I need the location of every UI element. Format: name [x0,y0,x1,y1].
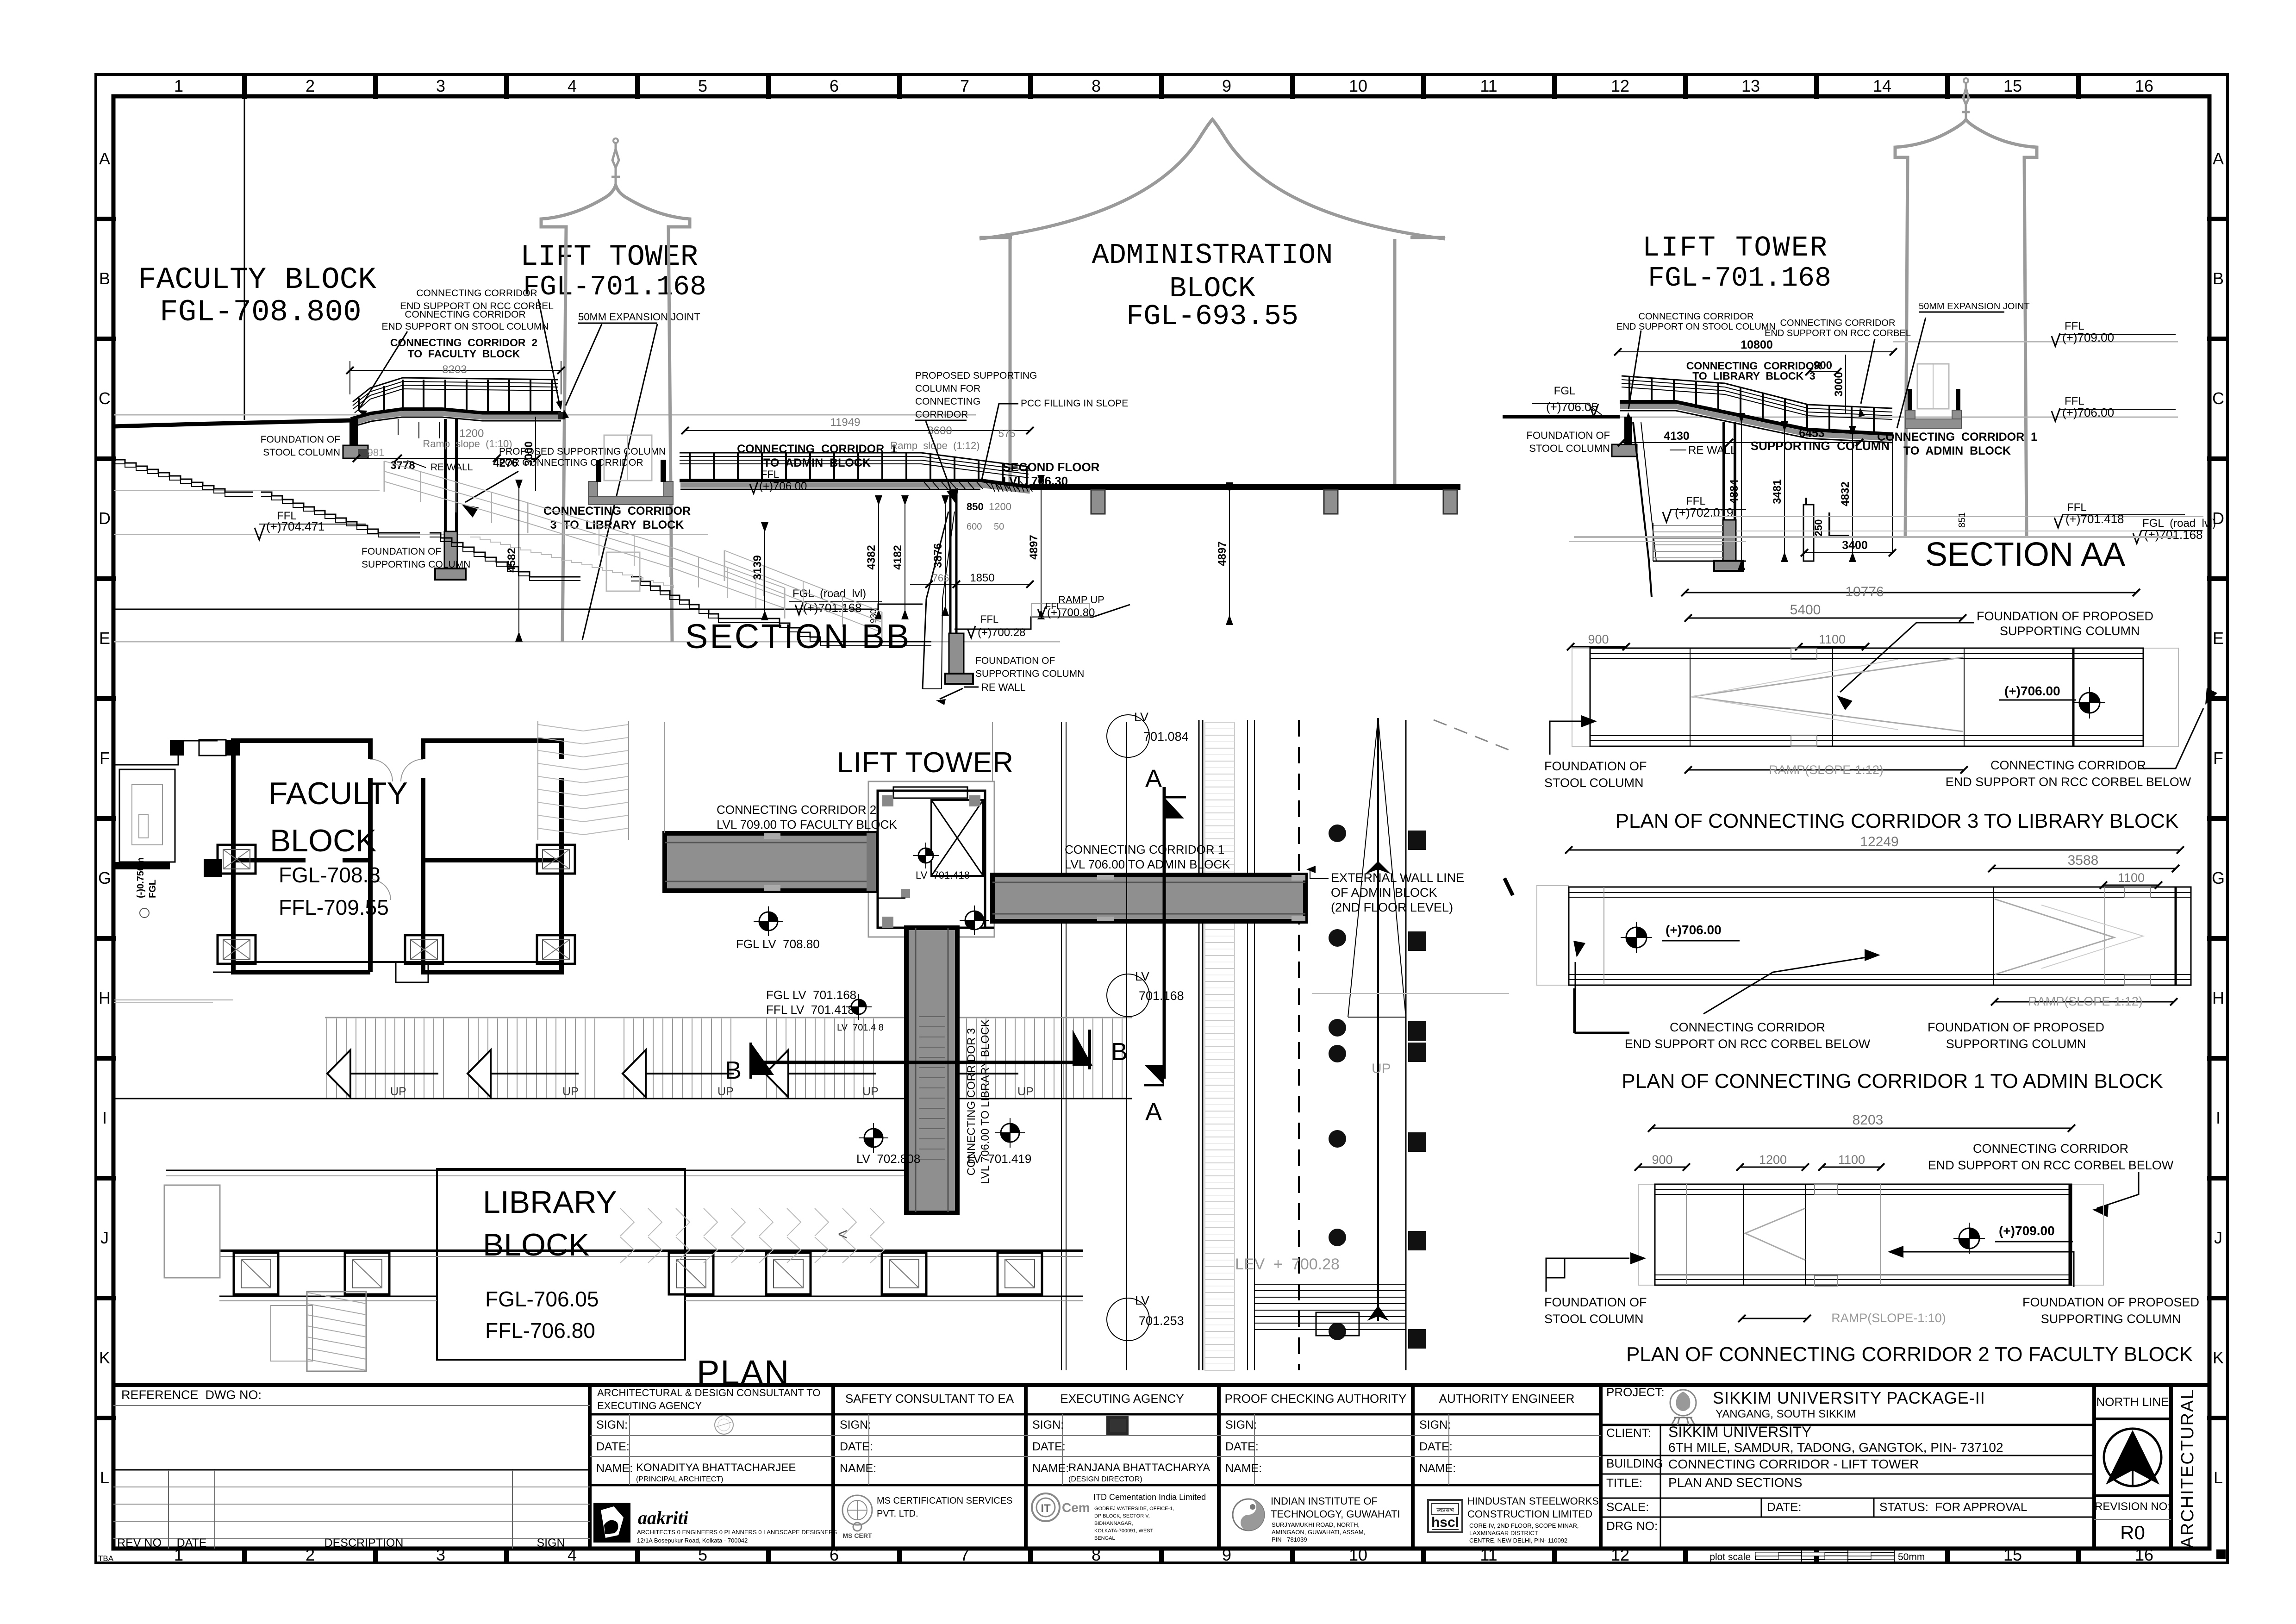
svg-text:F: F [100,749,110,768]
svg-text:9: 9 [1222,76,1231,95]
plan library column boxes [234,1253,1042,1294]
svg-text:I: I [102,1108,107,1127]
svg-text:LIFT TOWER: LIFT TOWER [837,747,1014,779]
plan admin tall triangle [1348,718,1406,1321]
svg-text:1200: 1200 [989,501,1011,512]
label proposed supporting column corridor2 [462,446,666,518]
plan library ramp chevrons [620,1208,884,1263]
svg-text:UP: UP [562,1085,579,1098]
label foundation proposed plan2 [2022,1295,2199,1326]
svg-text:50mm: 50mm [1898,1552,1925,1562]
svg-text:701.253: 701.253 [1139,1314,1184,1328]
svg-text:CONNECTING CORRIDOR 1: CONNECTING CORRIDOR 1 [1877,431,2037,443]
top grid column numbers [174,76,2153,95]
svg-text:DESCRIPTION: DESCRIPTION [324,1537,404,1549]
labels corridor2 supports [382,288,554,332]
svg-text:INDIAN INSTITUTE OF: INDIAN INSTITUTE OF [1271,1495,1378,1507]
svg-text:PROOF CHECKING AUTHORITY: PROOF CHECKING AUTHORITY [1225,1392,1407,1405]
svg-text:REVISION NO:: REVISION NO: [2095,1500,2171,1513]
svg-text:PVT. LTD.: PVT. LTD. [877,1509,918,1519]
ramp chevron plan2 [1745,1208,1805,1260]
plan faculty column boxes [218,845,575,964]
svg-text:4130: 4130 [1664,430,1690,443]
svg-text:LVL 709.00 TO FACULTY BLOCK: LVL 709.00 TO FACULTY BLOCK [717,818,897,831]
svg-text:TO ADMIN BLOCK: TO ADMIN BLOCK [1903,444,2011,457]
svg-text:LVL 706.00 TO ADMIN BLOCK: LVL 706.00 TO ADMIN BLOCK [1065,857,1230,871]
svg-text:CONNECTING CORRIDOR: CONNECTING CORRIDOR [416,288,537,299]
plan lift tower [868,781,994,937]
label foundation of proposed supporting column plan3 [1837,609,2153,710]
plan library text [483,1185,617,1343]
svg-text:8: 8 [1092,76,1101,95]
svg-text:RAMP UP: RAMP UP [1058,594,1104,606]
arrow to corbel plan3 [2139,688,2217,768]
FFL 700.28 label [955,605,1130,639]
svg-text:6TH MILE, SAMDUR, TADONG, GANG: 6TH MILE, SAMDUR, TADONG, GANGTOK, PIN- … [1668,1440,2003,1455]
small dims 766 1850 [910,501,1034,588]
leader corridor2 stool column [357,331,407,417]
svg-text:LV: LV [1135,969,1149,983]
svg-text:LV 701.419: LV 701.419 [967,1152,1031,1166]
svg-text:KONADITYA BHATTACHARJEE: KONADITYA BHATTACHARJEE [636,1462,796,1474]
svg-text:LV 701.4 8: LV 701.4 8 [837,1023,884,1033]
plan library block top edge [166,1170,940,1176]
svg-text:hscl: hscl [1431,1515,1459,1530]
svg-text:LV: LV [1135,1293,1149,1307]
svg-text:DATE:: DATE: [1419,1440,1453,1453]
svg-text:CONNECTING: CONNECTING [915,396,980,407]
re wall admin [923,512,1026,705]
svg-text:(+)701.168: (+)701.168 [2144,528,2202,542]
svg-text:CONSTRUCTION LIMITED: CONSTRUCTION LIMITED [1467,1508,1592,1520]
left grid row letters [98,149,111,1487]
plan level markers mid [736,843,989,1033]
svg-text:1100: 1100 [1819,632,1846,646]
svg-text:CORE-IV, 2ND FLOOR, SCOPE MINA: CORE-IV, 2ND FLOOR, SCOPE MINAR, [1469,1522,1578,1529]
svg-text:4897: 4897 [1028,535,1040,559]
svg-text:FGL-693.55: FGL-693.55 [1126,300,1298,333]
plan admin grid line with circles [1107,710,1189,1370]
plan faculty text [268,776,408,919]
svg-text:TO ADMIN BLOCK: TO ADMIN BLOCK [763,456,871,469]
svg-text:50MM EXPANSION JOINT: 50MM EXPANSION JOINT [1919,301,2030,312]
svg-text:DATE:: DATE: [1032,1440,1066,1453]
svg-text:PLAN AND SECTIONS: PLAN AND SECTIONS [1668,1475,1802,1490]
svg-text:K: K [2213,1348,2224,1367]
svg-text:50MM EXPANSION JOINT: 50MM EXPANSION JOINT [578,311,700,323]
svg-text:ITD Cementation India Limited: ITD Cementation India Limited [1093,1493,1206,1502]
svg-text:FOUNDATION OF: FOUNDATION OF [362,546,441,557]
arrow foundation plan1 [1703,949,1880,1014]
svg-text:6453: 6453 [1799,427,1825,440]
svg-text:RE WALL: RE WALL [981,681,1026,693]
plan external wall label [1306,866,1464,914]
svg-text:50: 50 [994,522,1004,532]
svg-text:250: 250 [1813,519,1824,537]
lift tower AA text [1642,231,1831,294]
svg-text:FOR CONNECTING CORRIDOR: FOR CONNECTING CORRIDOR [499,457,643,468]
svg-text:850: 850 [967,501,984,512]
corridor 2 deck section [351,409,561,427]
svg-text:FGL: FGL [1554,385,1576,397]
project cell [1601,1385,2094,1549]
svg-text:FFL-706.80: FFL-706.80 [485,1318,595,1343]
corner block bottom-right [2216,1549,2226,1559]
svg-text:स्वप्नसभ: स्वप्नसभ [1436,1506,1454,1513]
svg-text:FFL LV 701.418: FFL LV 701.418 [766,1003,855,1017]
re wall AA [1633,422,1736,597]
revision cell [2094,1496,2171,1543]
dim 1100 plan3 [1795,632,1869,650]
aakriti logo [593,1503,837,1544]
svg-text:1: 1 [174,76,183,95]
svg-text:F: F [2213,749,2223,768]
plan faculty right boundary lines [114,722,992,1003]
svg-text:2: 2 [306,76,315,95]
plan corridor 1 gray [992,875,1305,921]
svg-text:LVL. 706.30: LVL. 706.30 [1003,474,1068,488]
svg-text:TECHNOLOGY, GUWAHATI: TECHNOLOGY, GUWAHATI [1271,1508,1400,1520]
corridor 1 railing BB [680,453,1029,487]
svg-text:701.168: 701.168 [1139,989,1184,1003]
svg-text:FOUNDATION OF: FOUNDATION OF [975,656,1055,666]
svg-text:ARCHITECTURAL: ARCHITECTURAL [2178,1389,2197,1549]
corridor 3 railing AA [1622,376,1892,433]
svg-text:PLAN OF CONNECTING CORRIDOR 1: PLAN OF CONNECTING CORRIDOR 1 TO ADMIN B… [1622,1070,2163,1093]
svg-text:SAFETY CONSULTANT TO EA: SAFETY CONSULTANT TO EA [845,1392,1014,1405]
svg-text:5: 5 [698,76,707,95]
svg-text:ARCHITECTS 0 ENGINEERS 0 PLANN: ARCHITECTS 0 ENGINEERS 0 PLANNERS 0 LAND… [637,1529,837,1536]
stair railing gray BB [384,461,882,643]
svg-text:CONNECTING CORRIDOR - LIFT TOW: CONNECTING CORRIDOR - LIFT TOWER [1668,1457,1919,1471]
svg-text:DATE:: DATE: [1225,1440,1259,1453]
MS CERT logo [842,1495,1012,1539]
label connecting corridor 3 to library block BB [543,505,691,531]
svg-text:CENTRE, NEW DELHI, PIN- 110092: CENTRE, NEW DELHI, PIN- 110092 [1469,1537,1567,1544]
svg-text:LV 701.418: LV 701.418 [916,869,970,881]
svg-text:RAMP(SLOPE-1:10): RAMP(SLOPE-1:10) [1831,1311,1946,1325]
svg-text:12: 12 [1611,76,1629,95]
dim 8203 corridor2 [346,361,565,394]
svg-text:PLAN OF CONNECTING CORRIDOR 3: PLAN OF CONNECTING CORRIDOR 3 TO LIBRARY… [1616,810,2179,832]
svg-text:3876: 3876 [932,543,944,568]
svg-text:SUPPORTING COLUMN: SUPPORTING COLUMN [2000,624,2140,638]
svg-text:4: 4 [568,76,577,95]
svg-text:CORRIDOR: CORRIDOR [915,409,968,420]
svg-text:3: 3 [436,76,445,95]
svg-text:CONNECTING CORRIDOR: CONNECTING CORRIDOR [1990,758,2146,772]
svg-text:SECTION BB: SECTION BB [685,617,911,656]
svg-text:<: < [838,1224,848,1243]
svg-text:FFL: FFL [980,613,998,625]
svg-text:NAME:: NAME: [1225,1462,1262,1475]
sikkim university emblem [1670,1390,1696,1425]
svg-text:TBA: TBA [98,1554,114,1563]
svg-text:CONNECTING CORRIDOR: CONNECTING CORRIDOR [1670,1020,1825,1034]
svg-text:FFL: FFL [761,468,779,480]
svg-text:B: B [1111,1038,1128,1066]
svg-text:15: 15 [2003,76,2022,95]
FGL road level label BB [789,587,882,615]
label connecting corridor 1 to admin block AA [1877,431,2037,457]
svg-text:LIFT TOWER: LIFT TOWER [1642,231,1828,264]
revision table [113,1470,590,1549]
svg-text:CONNECTING CORRIDOR: CONNECTING CORRIDOR [405,309,525,320]
svg-text:SUPPORTING COLUMN: SUPPORTING COLUMN [1946,1037,2086,1051]
svg-text:(+)704.471: (+)704.471 [266,519,324,533]
corridor 3 section channel [588,435,673,505]
FFL 704.471 label [255,510,366,540]
svg-text:STOOL COLUMN: STOOL COLUMN [1544,1312,1644,1326]
svg-text:J: J [2214,1228,2222,1247]
svg-text:(+)706.00: (+)706.00 [759,480,807,493]
svg-text:LEV + 700.28: LEV + 700.28 [1235,1255,1340,1273]
svg-text:FGL LV 701.168: FGL LV 701.168 [766,988,856,1002]
plan library wall band [219,1251,1083,1301]
svg-text:H: H [2212,988,2224,1007]
corridor 3 deck section AA [1620,402,1893,443]
svg-text:CONNECTING CORRIDOR: CONNECTING CORRIDOR [1780,318,1896,328]
plan admin dashed line [1298,720,1300,1370]
ramp slope dim plan1 [1991,994,2177,1008]
svg-text:STATUS: FOR APPROVAL: STATUS: FOR APPROVAL [1879,1500,2027,1514]
svg-text:CLIENT:: CLIENT: [1606,1426,1651,1440]
vertical dims AA [1728,413,1856,570]
arrow stool plan2 [1546,1252,1646,1292]
svg-text:KOLKATA-700091, WEST: KOLKATA-700091, WEST [1094,1528,1154,1534]
plan stairs top right of faculty [538,721,629,840]
right grid row letters [2212,149,2225,1487]
svg-text:STOOL COLUMN: STOOL COLUMN [1529,443,1610,454]
FGL 706.05 label AA [1532,385,1602,417]
svg-text:A: A [2213,149,2224,168]
svg-text:FGL-706.05: FGL-706.05 [485,1287,599,1311]
svg-text:FOUNDATION OF: FOUNDATION OF [261,434,340,445]
svg-text:4832: 4832 [1839,481,1852,506]
stool column AA [1612,417,1637,456]
dim 10800 AA [1614,338,1897,356]
label foundation of stool column BB [261,434,340,458]
svg-text:MS CERTIFICATION SERVICES: MS CERTIFICATION SERVICES [877,1496,1012,1506]
svg-text:NAME:: NAME: [596,1462,633,1475]
plan section line A bottom flag [1144,1065,1164,1126]
faculty slab line [114,415,513,426]
svg-text:SCALE:: SCALE: [1606,1500,1649,1514]
svg-text:FFL-709.55: FFL-709.55 [279,895,389,919]
svg-text:RE WALL: RE WALL [430,462,473,473]
svg-text:UP: UP [862,1085,879,1098]
svg-text:PLAN OF CONNECTING CORRIDOR 2: PLAN OF CONNECTING CORRIDOR 2 TO FACULTY… [1626,1343,2193,1366]
svg-text:PCC FILLING IN SLOPE: PCC FILLING IN SLOPE [1021,398,1128,409]
plan admin right vertical [1405,720,1407,1370]
svg-text:SURJYAMUKHI ROAD, NORTH,: SURJYAMUKHI ROAD, NORTH, [1272,1521,1360,1528]
svg-text:FOUNDATION OF PROPOSED: FOUNDATION OF PROPOSED [2022,1295,2199,1309]
svg-text:EXECUTING AGENCY: EXECUTING AGENCY [597,1400,702,1412]
svg-text:4182: 4182 [892,545,904,569]
svg-text:G: G [2212,868,2225,887]
svg-text:E: E [2213,629,2224,648]
svg-text:DATE:: DATE: [596,1440,630,1453]
svg-text:COLUMN FOR: COLUMN FOR [915,383,980,394]
svg-text:END SUPPORT ON RCC CORBEL BELO: END SUPPORT ON RCC CORBEL BELOW [1946,775,2191,789]
architect stamp [715,1416,733,1434]
architectural consultant cell [590,1387,833,1485]
stool column corridor2 [343,419,368,458]
grid tick marks top and bottom [244,75,2078,1562]
plan admin black squares [1408,831,1426,1349]
svg-text:END SUPPORT ON RCC CORBEL: END SUPPORT ON RCC CORBEL [1765,328,1911,338]
svg-text:plot scale: plot scale [1710,1552,1751,1562]
plan library rect outline [437,1169,685,1360]
dim 8203 plan2 [1648,1112,2075,1132]
label foundation of supporting column BB mid [362,546,470,570]
corridor plan 2 body [1638,1184,2103,1286]
gray stair under corridor 3 BB [470,537,674,588]
svg-text:12/1A Bosepukur Road, Kolkata: 12/1A Bosepukur Road, Kolkata - 700042 [637,1537,748,1544]
label connecting corridor end support on rcc corbel AA [1765,318,1911,417]
dim 3139 [751,522,768,620]
ramp chevron plan1 [1995,899,2143,974]
svg-text:UP: UP [1372,1061,1391,1076]
corridor plan 3 body [1572,648,2178,746]
FFL 702.019 label AA [1663,495,1746,522]
svg-text:10800: 10800 [1741,338,1773,351]
svg-text:ADMINISTRATION: ADMINISTRATION [1092,239,1333,272]
svg-text:K: K [99,1348,110,1367]
label 50mm expansion joint BB [562,311,700,640]
label second floor lvl 706.30 [1003,460,1100,488]
label connecting corridor end support plan3 [1946,758,2191,789]
dims AA 4130 6453 [1618,427,1863,446]
svg-text:FGL-701.168: FGL-701.168 [523,272,706,303]
svg-text:LV: LV [1134,710,1148,724]
title block vertical dividers [590,1385,2171,1549]
administration block text [1092,239,1333,333]
svg-text:J: J [100,1228,109,1247]
svg-text:SIGN:: SIGN: [596,1418,628,1431]
svg-text:B: B [99,269,110,288]
svg-text:IT: IT [1041,1502,1051,1515]
plan stairs field [114,1018,1132,1099]
svg-text:CONNECTING CORRIDOR: CONNECTING CORRIDOR [1973,1142,2128,1156]
plan section line B right flag [1073,1030,1128,1069]
supporting columns AA [1714,422,1814,571]
svg-text:EXECUTING AGENCY: EXECUTING AGENCY [1060,1392,1184,1405]
svg-text:(2ND FLOOR LEVEL): (2ND FLOOR LEVEL) [1331,900,1453,914]
svg-text:DRG NO:: DRG NO: [1606,1519,1658,1533]
svg-text:(+)706.00: (+)706.00 [2004,684,2060,698]
svg-text:12249: 12249 [1860,834,1898,849]
svg-text:FOUNDATION OF: FOUNDATION OF [1544,1295,1647,1309]
svg-text:10776: 10776 [1845,584,1884,600]
title block outline [113,1385,2209,1549]
ramp chevron plan 3 [1691,657,1963,731]
plan admin brick hatch column [1205,722,1235,1370]
svg-text:GODREJ WATERSIDE, OFFICE-1,: GODREJ WATERSIDE, OFFICE-1, [1094,1506,1174,1512]
svg-text:(+)706.00: (+)706.00 [1666,923,1722,937]
svg-text:PROPOSED SUPPORTING: PROPOSED SUPPORTING [915,370,1037,381]
section BB level line 704 [114,490,380,491]
plan section line B-B [751,1061,1090,1064]
svg-text:LAXMINAGAR DISTRICT: LAXMINAGAR DISTRICT [1469,1530,1538,1537]
svg-text:FGL LV 708.80: FGL LV 708.80 [736,937,820,951]
svg-text:10: 10 [1349,76,1367,95]
plan section line A top flag [1145,765,1186,1079]
svg-text:FGL: FGL [148,880,158,898]
label pcc filling in slope [981,398,1128,481]
svg-text:LIBRARY: LIBRARY [483,1185,617,1220]
svg-text:CONNECTING CORRIDOR 2: CONNECTING CORRIDOR 2 [717,803,876,817]
dim 3000 corridor2 [523,417,536,491]
label foundation of stool column AA [1527,430,1610,454]
svg-text:CONNECTING CORRIDOR: CONNECTING CORRIDOR [543,505,691,518]
svg-text:LV 702.808: LV 702.808 [856,1152,920,1166]
svg-text:E: E [99,629,110,648]
svg-text:900: 900 [1814,359,1832,372]
svg-text:1200: 1200 [1759,1153,1787,1167]
plan section line B left flag [725,1043,774,1084]
north arrow [2106,1430,2159,1486]
bottom grid column numbers [174,1545,2153,1564]
svg-text:BLOCK: BLOCK [270,823,377,858]
label connecting corridor 2 to faculty block [390,337,537,360]
admin second floor slab [992,484,1460,514]
svg-text:B: B [725,1056,742,1084]
corridor 1 channel AA [1906,364,1961,428]
plan faculty block rooms [233,741,562,972]
svg-text:HINDUSTAN STEELWORKS: HINDUSTAN STEELWORKS [1467,1495,1599,1507]
svg-text:3588: 3588 [2068,853,2099,868]
svg-text:981: 981 [368,447,385,458]
svg-text:DATE:: DATE: [840,1440,873,1453]
lift tower BB text [520,241,706,303]
svg-text:1100: 1100 [2118,871,2145,885]
safety consultant cell [833,1392,1026,1485]
svg-text:6: 6 [830,76,839,95]
main staircase BB [114,460,931,646]
labels corbel plan2 [1928,1142,2174,1217]
svg-text:I: I [2216,1108,2221,1127]
dim 4582 [505,480,523,642]
AA FFL 701.418 level [1713,501,2203,528]
svg-text:766: 766 [932,572,949,584]
svg-text:(+)706.05: (+)706.05 [1546,400,1598,414]
vertical grid line col1 [244,98,245,420]
svg-text:H: H [99,988,111,1007]
plan admin gray line [1312,993,1509,994]
svg-text:SUPPORTING COLUMN: SUPPORTING COLUMN [2041,1312,2181,1326]
svg-text:SIGN:: SIGN: [1225,1418,1257,1431]
svg-text:FACULTY: FACULTY [268,776,408,811]
svg-text:851: 851 [1957,512,1967,528]
svg-text:aakriti: aakriti [638,1507,688,1528]
svg-text:3481: 3481 [1771,479,1784,504]
svg-text:TO LIBRARY BLOCK 3: TO LIBRARY BLOCK 3 [1692,370,1815,382]
svg-text:BUILDING: BUILDING [1606,1456,1663,1470]
svg-text:3 TO LIBRARY BLOCK: 3 TO LIBRARY BLOCK [550,518,684,531]
svg-text:END SUPPORT ON RCC CORBEL BELO: END SUPPORT ON RCC CORBEL BELOW [1625,1037,1871,1051]
svg-text:SECTION AA: SECTION AA [1925,536,2125,573]
svg-text:BIDHANNAGAR,: BIDHANNAGAR, [1094,1521,1133,1526]
vertical dims BB middle [865,475,1233,625]
plan corridor 3 gray vertical [906,928,957,1213]
svg-text:SIGN:: SIGN: [1032,1418,1064,1431]
svg-text:600: 600 [967,522,982,532]
svg-text:1850: 1850 [970,572,994,584]
svg-text:13: 13 [1741,76,1760,95]
small steps AA right [1569,512,1849,542]
svg-text:900: 900 [1588,632,1609,646]
